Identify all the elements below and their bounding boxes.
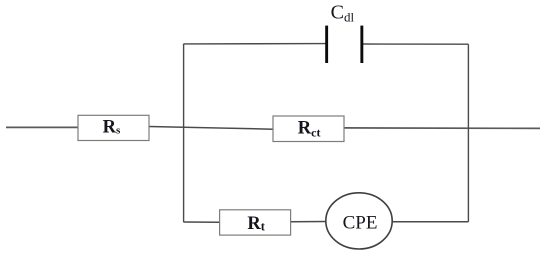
resistor Rs box bbox=[78, 115, 149, 140]
wire Rs to Rct (crosses node A) bbox=[149, 127, 273, 130]
CPE element circle U1 bbox=[326, 193, 392, 249]
wire Cdl right plate to top-right corner bbox=[363, 43, 468, 45]
wire CPE to bottom-right corner bbox=[392, 221, 468, 223]
wire left lead into Rs bbox=[6, 126, 78, 128]
wire right vertical branch riser bbox=[467, 44, 469, 222]
resistor Rt box bbox=[220, 210, 291, 235]
wire Rt to CPE bbox=[291, 221, 327, 223]
svg-text:CPE: CPE bbox=[343, 212, 378, 233]
wire left vertical branch riser bbox=[183, 44, 185, 222]
wire Rct to right edge (crosses node B) bbox=[344, 127, 540, 129]
wire bottom branch to Rt bbox=[184, 221, 220, 223]
capacitor C_dl plates bbox=[325, 26, 363, 63]
wire top branch to Cdl left plate bbox=[184, 43, 326, 45]
resistor Rct box bbox=[273, 116, 344, 142]
